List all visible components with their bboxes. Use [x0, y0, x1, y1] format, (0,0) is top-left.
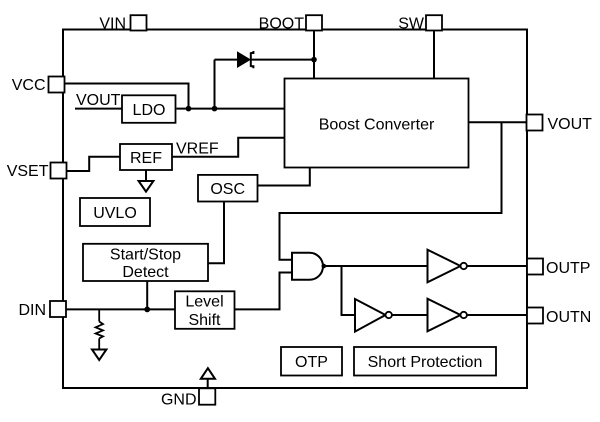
resistor R1 pulldown on DIN [96, 309, 103, 349]
wire OSC bottom to Start/Stop Detect [208, 202, 224, 264]
wire AND output branch down to inverter chain [342, 266, 356, 315]
pin VSET [51, 163, 67, 179]
svg-text:Level: Level [185, 294, 223, 311]
inverter U3 (first in OUTN chain) [355, 299, 392, 332]
wire LDO output node to Boost Converter left [177, 108, 285, 110]
svg-text:Boost Converter: Boost Converter [319, 117, 435, 134]
wire BOOT pin to Boost Converter top [313, 30, 315, 79]
svg-text:REF: REF [130, 150, 162, 167]
pin VCC [49, 77, 65, 93]
wire AND output to top inverter [324, 265, 428, 267]
AND gate output dot [322, 264, 327, 269]
diode D1 (to BOOT) [238, 51, 254, 68]
block Short Protection [354, 347, 496, 376]
svg-text:VREF: VREF [176, 141, 219, 158]
wire Boost Converter to VOUT pin [469, 121, 528, 123]
pin SW [426, 15, 442, 30]
AND gate U1 [292, 253, 323, 280]
inverter U4 (second in OUTN chain) [428, 299, 467, 332]
pin GND [199, 388, 215, 404]
pin VIN [131, 15, 147, 30]
block Level Shift [175, 291, 235, 329]
block OTP [281, 347, 342, 376]
block Boost Converter [285, 79, 469, 168]
junction dot diode-leg/node [212, 106, 218, 112]
svg-text:OUTP: OUTP [546, 260, 590, 277]
block Start/Stop Detect [83, 244, 208, 281]
wire VCC to LDO output node [65, 84, 189, 109]
wire diode cathode to BOOT leg [252, 59, 315, 61]
wire OSC to Boost Converter bottom [258, 168, 310, 186]
wire top inverter to OUTP [467, 265, 527, 267]
inverter U2 (top, to OUTP) [428, 250, 467, 283]
ground arrow below resistor [92, 350, 106, 361]
pin OUTP [527, 259, 543, 275]
svg-text:Short Protection: Short Protection [368, 354, 483, 371]
block LDO [122, 95, 176, 123]
svg-text:Shift: Shift [188, 312, 221, 329]
svg-text:OSC: OSC [210, 181, 245, 198]
svg-text:VOUT: VOUT [76, 92, 121, 109]
pin OUTN [527, 308, 543, 324]
svg-text:UVLO: UVLO [93, 205, 137, 222]
svg-text:VIN: VIN [99, 16, 126, 33]
wire Level Shift to AND gate lower input [235, 273, 293, 310]
svg-text:LDO: LDO [133, 102, 166, 119]
svg-text:Start/Stop: Start/Stop [110, 247, 181, 264]
svg-text:DIN: DIN [18, 302, 46, 319]
svg-text:GND: GND [161, 392, 197, 409]
wire diode anode [215, 59, 239, 61]
wire feedback from VOUT net to AND gate upper input [280, 122, 502, 259]
wire SW pin to Boost Converter top [433, 30, 435, 79]
junction dot VCC/node [186, 106, 192, 112]
svg-text:SW: SW [398, 16, 425, 33]
svg-text:OTP: OTP [295, 354, 328, 371]
svg-text:BOOT: BOOT [259, 16, 305, 33]
pin BOOT [306, 15, 322, 30]
svg-text:VOUT: VOUT [548, 116, 593, 133]
pin VOUT [527, 115, 543, 131]
wire between OUTN-chain inverters [392, 314, 428, 316]
block UVLO [80, 198, 150, 226]
wire second inverter to OUTN [467, 314, 527, 316]
svg-text:Detect: Detect [122, 264, 169, 281]
junction dot BOOT/diode [311, 57, 317, 63]
outer box: IC boundary [63, 30, 527, 389]
ground arrow below REF [139, 181, 154, 192]
svg-text:VCC: VCC [12, 77, 46, 94]
wire REF bottom stub [145, 170, 147, 181]
ground arrow above GND pin [201, 368, 215, 388]
wire VSET to REF input [67, 157, 121, 171]
svg-text:OUTN: OUTN [546, 309, 591, 326]
block REF [120, 144, 172, 170]
svg-text:VSET: VSET [7, 163, 49, 180]
wire Start/Stop Detect down to DIN net [146, 281, 148, 309]
wire diode branch riser [214, 60, 216, 109]
junction dot Start/Stop-DIN [144, 307, 150, 313]
pin DIN [50, 301, 66, 317]
wire REF output VREF to Boost Converter left [172, 138, 285, 157]
wire node VOUT stub into LDO input [75, 108, 122, 110]
wire DIN to Level Shift [66, 308, 175, 310]
block OSC [198, 175, 258, 202]
